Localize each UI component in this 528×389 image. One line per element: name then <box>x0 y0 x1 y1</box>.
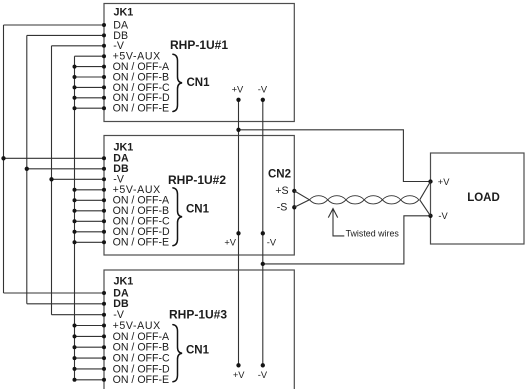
junction U2 chain <box>73 188 77 192</box>
wire U2 DB pin <box>27 168 104 170</box>
wire U1 DB pin <box>27 34 104 36</box>
junction U3 chain <box>73 378 77 382</box>
svg-text:CN1: CN1 <box>186 345 210 357</box>
wire U2 DA pin <box>4 157 105 159</box>
junction U2 chain <box>73 209 77 213</box>
node U1 -V pin dot <box>102 44 106 48</box>
wire -V output bus vertical <box>262 100 264 366</box>
junction U2 chain <box>73 198 77 202</box>
node U3 ON / OFF-C pin dot <box>102 356 106 360</box>
svg-text:-V: -V <box>258 370 268 380</box>
node U2 DA pin dot <box>102 156 106 160</box>
power supply box RHP-1U#3 (bottom clipped) <box>104 270 294 389</box>
node U3 ON / OFF-A pin dot <box>102 334 106 338</box>
node U2 ON / OFF-B pin dot <box>102 209 106 213</box>
wire U3 -V pin <box>52 314 105 316</box>
node U3 DA pin dot <box>102 291 106 295</box>
junction U3 chain <box>73 356 77 360</box>
svg-text:-S: -S <box>277 201 288 213</box>
node U1 +V terminal <box>236 98 240 102</box>
wire -S lead <box>294 200 309 208</box>
wire sense to load +V <box>420 182 431 200</box>
junction U1 chain <box>73 75 77 79</box>
svg-text:JK1: JK1 <box>114 6 134 18</box>
wire U1 DA pin <box>4 24 105 26</box>
junction U1 chain <box>73 96 77 100</box>
node U1 ON / OFF-E pin dot <box>102 106 106 110</box>
wire U2 ON / OFF-B pin <box>75 210 105 212</box>
node U2 ON / OFF-A pin dot <box>102 198 106 202</box>
svg-text:+V: +V <box>233 370 245 380</box>
wire +V output bus vertical <box>238 100 240 366</box>
brace CN1 of U2 <box>173 188 182 246</box>
brace CN1 of U1 <box>173 54 182 111</box>
load box <box>431 153 525 244</box>
node LOAD +V terminal <box>428 179 432 183</box>
arrow callout to twisted wires <box>333 209 344 236</box>
wire +S lead <box>294 191 309 200</box>
wire U1 -V pin <box>52 45 105 47</box>
wire U2 ON / OFF-D pin <box>75 231 105 233</box>
svg-text:ON / OFF-E: ON / OFF-E <box>113 374 170 386</box>
junction U3 chain <box>73 345 77 349</box>
power supply box RHP-1U#1 <box>104 4 294 122</box>
junction -V bus / feed <box>261 262 265 266</box>
junction U1 chain <box>73 85 77 89</box>
wire U2 ON / OFF-A pin <box>75 199 105 201</box>
node U3 ON / OFF-E pin dot <box>102 378 106 382</box>
node CN2 +S terminal <box>292 189 296 193</box>
svg-text:ON / OFF-E: ON / OFF-E <box>113 103 170 115</box>
node U3 +V terminal <box>236 363 240 367</box>
svg-text:-V: -V <box>267 238 277 248</box>
wire U2 -V pin <box>52 178 105 180</box>
svg-text:+V: +V <box>224 238 236 248</box>
junction U3 chain <box>73 334 77 338</box>
svg-text:CN1: CN1 <box>186 204 210 216</box>
svg-text:+V: +V <box>438 177 450 187</box>
node U1 +5V-AUX pin dot <box>102 54 106 58</box>
node U3 +5V-AUX pin dot <box>102 324 106 328</box>
wire U3 ON / OFF-C pin <box>75 357 105 359</box>
svg-text:ON / OFF-E: ON / OFF-E <box>113 237 170 249</box>
wire U3 ON / OFF-E pin <box>75 379 105 381</box>
wire U1 ON / OFF-A pin <box>75 66 105 68</box>
node U2 -V terminal <box>261 231 265 235</box>
wire sense to load -V <box>420 200 431 216</box>
twisted wires drawing <box>310 196 419 204</box>
wire U3 ON / OFF-B pin <box>75 346 105 348</box>
node U3 DB pin dot <box>102 302 106 306</box>
junction U2 chain <box>73 219 77 223</box>
svg-text:CN2: CN2 <box>268 168 291 180</box>
junction U3 chain <box>73 367 77 371</box>
node U2 ON / OFF-E pin dot <box>102 240 106 244</box>
wire U2 ON / OFF-C pin <box>75 220 105 222</box>
node U2 ON / OFF-D pin dot <box>102 230 106 234</box>
node U1 -V terminal <box>261 98 265 102</box>
node U3 -V terminal <box>261 363 265 367</box>
brace CN1 of U3 <box>173 325 182 382</box>
wire U1 ON / OFF-E pin <box>75 107 105 109</box>
wire DA bus vertical <box>3 25 5 293</box>
junction U1 chain <box>73 106 77 110</box>
wire U3 ON / OFF-D pin <box>75 368 105 370</box>
wire +V feed to load <box>239 130 431 182</box>
svg-text:+V: +V <box>232 85 244 95</box>
node CN2 -S terminal <box>292 205 296 209</box>
wire +5V-AUX / ON-OFF chain vertical <box>74 56 76 380</box>
wire DB bus vertical <box>26 35 28 303</box>
node U3 -V pin dot <box>102 313 106 317</box>
node U1 DA pin dot <box>102 23 106 27</box>
node U3 ON / OFF-D pin dot <box>102 367 106 371</box>
svg-text:-V: -V <box>438 211 448 221</box>
wire U2 ON / OFF-E pin <box>75 241 105 243</box>
junction U3 chain <box>73 324 77 328</box>
node U2 +5V-AUX pin dot <box>102 188 106 192</box>
node U2 +V terminal <box>236 231 240 235</box>
wire U1 ON / OFF-B pin <box>75 76 105 78</box>
svg-text:RHP-1U#3: RHP-1U#3 <box>169 307 227 321</box>
wire U3 +5V-AUX pin <box>75 325 105 327</box>
node U2 DB pin dot <box>102 167 106 171</box>
junction U1 chain <box>73 65 77 69</box>
node U1 ON / OFF-D pin dot <box>102 96 106 100</box>
junction U2 chain <box>73 240 77 244</box>
svg-text:LOAD: LOAD <box>467 192 500 204</box>
svg-text:JK1: JK1 <box>114 276 134 288</box>
node U1 ON / OFF-C pin dot <box>102 85 106 89</box>
power supply box RHP-1U#2 <box>104 136 294 256</box>
node LOAD -V terminal <box>428 214 432 218</box>
wire U2 +5V-AUX pin <box>75 189 105 191</box>
node U1 ON / OFF-A pin dot <box>102 65 106 69</box>
wire -V bus vertical <box>51 46 53 315</box>
wire U1 ON / OFF-C pin <box>75 86 105 88</box>
node U1 DB pin dot <box>102 33 106 37</box>
svg-text:CN1: CN1 <box>187 77 211 89</box>
wire U1 ON / OFF-D pin <box>75 97 105 99</box>
junction +V bus / feed <box>236 128 240 132</box>
junction DA bus / U2 <box>1 156 5 160</box>
svg-text:+S: +S <box>275 185 288 197</box>
wire U3 DB pin <box>27 303 104 305</box>
svg-text:RHP-1U#1: RHP-1U#1 <box>170 38 228 52</box>
junction U2 chain <box>73 230 77 234</box>
junction -V bus / U2 <box>49 177 53 181</box>
svg-text:Twisted wires: Twisted wires <box>346 228 400 238</box>
svg-text:-V: -V <box>258 85 268 95</box>
wire U1 +5V-AUX pin <box>75 55 105 57</box>
node U1 ON / OFF-B pin dot <box>102 75 106 79</box>
svg-text:RHP-1U#2: RHP-1U#2 <box>168 173 226 187</box>
node U2 ON / OFF-C pin dot <box>102 219 106 223</box>
wire U3 ON / OFF-A pin <box>75 335 105 337</box>
node U3 ON / OFF-B pin dot <box>102 345 106 349</box>
node U2 -V pin dot <box>102 177 106 181</box>
wire -V feed to load <box>263 216 431 264</box>
junction DB bus / U2 <box>25 167 29 171</box>
wire U3 DA pin <box>4 292 105 294</box>
